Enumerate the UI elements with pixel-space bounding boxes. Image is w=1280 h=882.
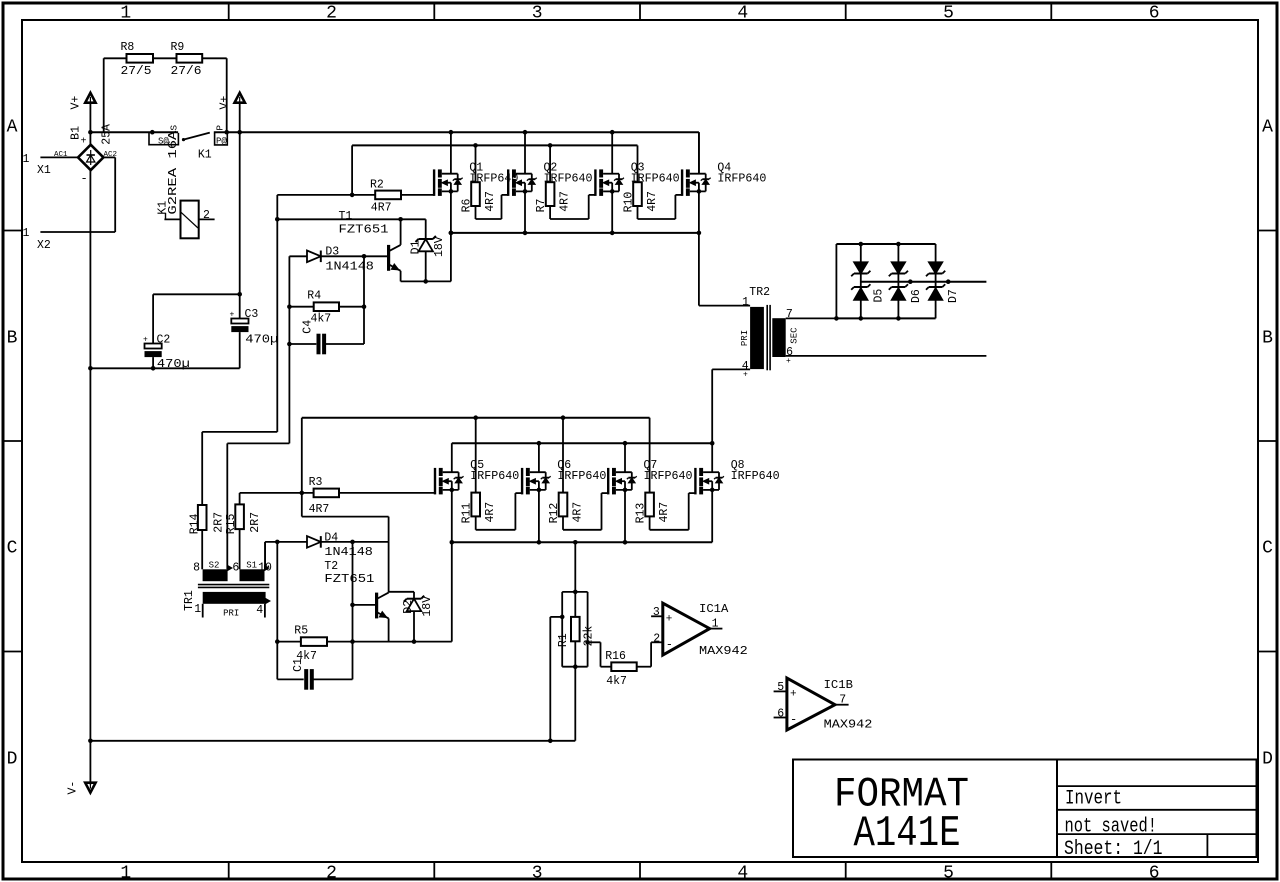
svg-text:8: 8 bbox=[193, 562, 200, 575]
svg-text:C: C bbox=[7, 539, 18, 559]
svg-text:R3: R3 bbox=[309, 476, 323, 489]
svg-text:IRFP640: IRFP640 bbox=[469, 172, 518, 185]
svg-text:+: + bbox=[743, 371, 748, 380]
svg-text:C2: C2 bbox=[157, 333, 171, 346]
svg-text:S2: S2 bbox=[209, 561, 220, 571]
svg-text:MAX942: MAX942 bbox=[824, 719, 873, 732]
svg-text:4R7: 4R7 bbox=[646, 191, 659, 212]
svg-text:X2: X2 bbox=[37, 239, 51, 252]
svg-text:C4: C4 bbox=[302, 320, 315, 334]
svg-text:4R7: 4R7 bbox=[484, 191, 497, 212]
svg-text:2R7: 2R7 bbox=[212, 512, 225, 533]
svg-text:22k: 22k bbox=[582, 626, 595, 647]
svg-text:4: 4 bbox=[737, 4, 748, 24]
svg-text:D7: D7 bbox=[947, 289, 960, 303]
svg-text:PRI: PRI bbox=[740, 330, 750, 346]
svg-text:IRFP640: IRFP640 bbox=[717, 172, 766, 185]
svg-text:4R7: 4R7 bbox=[572, 502, 585, 523]
svg-text:D3: D3 bbox=[325, 245, 339, 258]
svg-text:R8: R8 bbox=[121, 41, 135, 54]
svg-text:IRFP640: IRFP640 bbox=[644, 470, 693, 483]
svg-text:6: 6 bbox=[777, 708, 784, 721]
svg-text:TR2: TR2 bbox=[749, 286, 770, 299]
svg-text:2: 2 bbox=[653, 632, 660, 645]
svg-text:T1: T1 bbox=[339, 210, 353, 223]
svg-text:25A: 25A bbox=[101, 124, 114, 145]
svg-text:IRFP640: IRFP640 bbox=[631, 172, 680, 185]
svg-text:PRI: PRI bbox=[223, 608, 239, 618]
svg-text:1: 1 bbox=[120, 4, 131, 24]
svg-text:5: 5 bbox=[943, 4, 954, 24]
svg-text:R1: R1 bbox=[557, 633, 570, 647]
svg-text:D4: D4 bbox=[324, 532, 338, 545]
svg-text:B1: B1 bbox=[70, 126, 83, 140]
svg-text:Invert: Invert bbox=[1065, 788, 1122, 811]
svg-text:R10: R10 bbox=[622, 192, 635, 213]
svg-text:V+: V+ bbox=[219, 96, 232, 110]
svg-text:18V: 18V bbox=[421, 596, 434, 617]
svg-text:1: 1 bbox=[712, 618, 719, 631]
svg-text:IC1A: IC1A bbox=[699, 603, 728, 616]
svg-text:D: D bbox=[1262, 749, 1273, 769]
svg-text:D5: D5 bbox=[872, 289, 885, 303]
svg-text:1: 1 bbox=[194, 603, 201, 616]
svg-text:D6: D6 bbox=[910, 289, 923, 303]
svg-text:V-: V- bbox=[67, 781, 80, 795]
svg-text:4k7: 4k7 bbox=[606, 675, 627, 688]
svg-text:V+: V+ bbox=[70, 96, 83, 110]
svg-text:T2: T2 bbox=[324, 560, 338, 573]
svg-text:S: S bbox=[169, 125, 180, 131]
svg-text:R13: R13 bbox=[634, 503, 647, 524]
svg-text:Sheet: 1/1: Sheet: 1/1 bbox=[1064, 838, 1163, 861]
svg-text:R7: R7 bbox=[535, 199, 548, 213]
svg-text:1N4148: 1N4148 bbox=[324, 546, 373, 559]
svg-text:MAX942: MAX942 bbox=[699, 645, 748, 658]
svg-text:IRFP640: IRFP640 bbox=[470, 470, 519, 483]
svg-text:5: 5 bbox=[777, 681, 784, 694]
svg-text:+: + bbox=[230, 310, 235, 319]
svg-text:1N4148: 1N4148 bbox=[325, 260, 374, 273]
svg-text:7: 7 bbox=[839, 694, 846, 707]
svg-text:4R7: 4R7 bbox=[371, 202, 392, 215]
svg-text:6: 6 bbox=[1149, 864, 1160, 882]
svg-text:C1: C1 bbox=[292, 658, 305, 672]
svg-text:A141E: A141E bbox=[854, 809, 961, 859]
svg-text:2: 2 bbox=[326, 864, 337, 882]
svg-text:C: C bbox=[1262, 539, 1273, 559]
svg-text:3: 3 bbox=[653, 606, 660, 619]
svg-text:4R7: 4R7 bbox=[309, 503, 330, 516]
svg-text:R11: R11 bbox=[461, 503, 474, 524]
svg-text:5: 5 bbox=[943, 864, 954, 882]
svg-text:D: D bbox=[7, 749, 18, 769]
svg-text:+: + bbox=[666, 614, 673, 626]
svg-text:4: 4 bbox=[256, 604, 263, 617]
svg-text:1: 1 bbox=[120, 864, 131, 882]
svg-text:G2REA 16A: G2REA 16A bbox=[167, 130, 180, 214]
svg-text:2: 2 bbox=[203, 209, 210, 222]
svg-text:-: - bbox=[81, 172, 88, 186]
svg-text:+: + bbox=[790, 688, 797, 700]
svg-text:B: B bbox=[7, 328, 18, 348]
svg-text:IC1B: IC1B bbox=[824, 679, 853, 692]
svg-text:C3: C3 bbox=[245, 308, 259, 321]
svg-text:R12: R12 bbox=[548, 503, 561, 524]
svg-text:R9: R9 bbox=[171, 41, 185, 54]
svg-text:470µ: 470µ bbox=[245, 333, 278, 346]
svg-text:R5: R5 bbox=[294, 625, 308, 638]
svg-text:R6: R6 bbox=[460, 198, 473, 212]
svg-text:27/5: 27/5 bbox=[121, 65, 152, 78]
svg-text:FZT651: FZT651 bbox=[324, 573, 374, 586]
svg-text:27/6: 27/6 bbox=[171, 65, 202, 78]
svg-text:4R7: 4R7 bbox=[559, 191, 572, 212]
svg-text:R15: R15 bbox=[225, 513, 238, 534]
svg-text:D2: D2 bbox=[402, 600, 415, 614]
svg-text:-: - bbox=[790, 712, 797, 726]
svg-text:1: 1 bbox=[23, 153, 30, 166]
svg-text:4R7: 4R7 bbox=[484, 502, 497, 523]
svg-text:R2: R2 bbox=[370, 179, 384, 192]
svg-text:IRFP640: IRFP640 bbox=[731, 470, 780, 483]
svg-text:IRFP640: IRFP640 bbox=[557, 470, 606, 483]
svg-text:K1: K1 bbox=[198, 149, 212, 162]
svg-text:6: 6 bbox=[232, 562, 239, 575]
svg-text:1: 1 bbox=[23, 227, 30, 240]
svg-text:R14: R14 bbox=[189, 513, 202, 534]
svg-text:+: + bbox=[786, 357, 791, 366]
svg-text:3: 3 bbox=[532, 864, 543, 882]
svg-text:4: 4 bbox=[737, 864, 748, 882]
svg-text:FZT651: FZT651 bbox=[339, 224, 389, 237]
svg-text:-: - bbox=[666, 638, 673, 652]
svg-text:A: A bbox=[7, 118, 18, 138]
svg-text:P: P bbox=[215, 125, 226, 131]
svg-text:X1: X1 bbox=[37, 164, 51, 177]
svg-text:B: B bbox=[1262, 328, 1273, 348]
svg-text:10: 10 bbox=[258, 562, 272, 575]
svg-text:P@: P@ bbox=[216, 137, 227, 147]
svg-text:IRFP640: IRFP640 bbox=[544, 172, 593, 185]
svg-text:not saved!: not saved! bbox=[1065, 816, 1158, 839]
svg-text:SEC: SEC bbox=[790, 327, 800, 344]
svg-text:470µ: 470µ bbox=[157, 358, 190, 371]
svg-text:4R7: 4R7 bbox=[658, 502, 671, 523]
svg-text:6: 6 bbox=[1149, 4, 1160, 24]
svg-text:R4: R4 bbox=[307, 289, 321, 302]
svg-text:2: 2 bbox=[326, 4, 337, 24]
svg-text:3: 3 bbox=[532, 4, 543, 24]
svg-text:R16: R16 bbox=[605, 650, 626, 663]
svg-text:2R7: 2R7 bbox=[249, 512, 262, 533]
svg-text:S1: S1 bbox=[246, 561, 257, 571]
svg-text:+: + bbox=[143, 335, 148, 344]
svg-text:18V: 18V bbox=[433, 236, 446, 257]
svg-text:D1: D1 bbox=[410, 240, 423, 254]
svg-text:A: A bbox=[1262, 118, 1273, 138]
svg-text:1: 1 bbox=[742, 296, 749, 309]
